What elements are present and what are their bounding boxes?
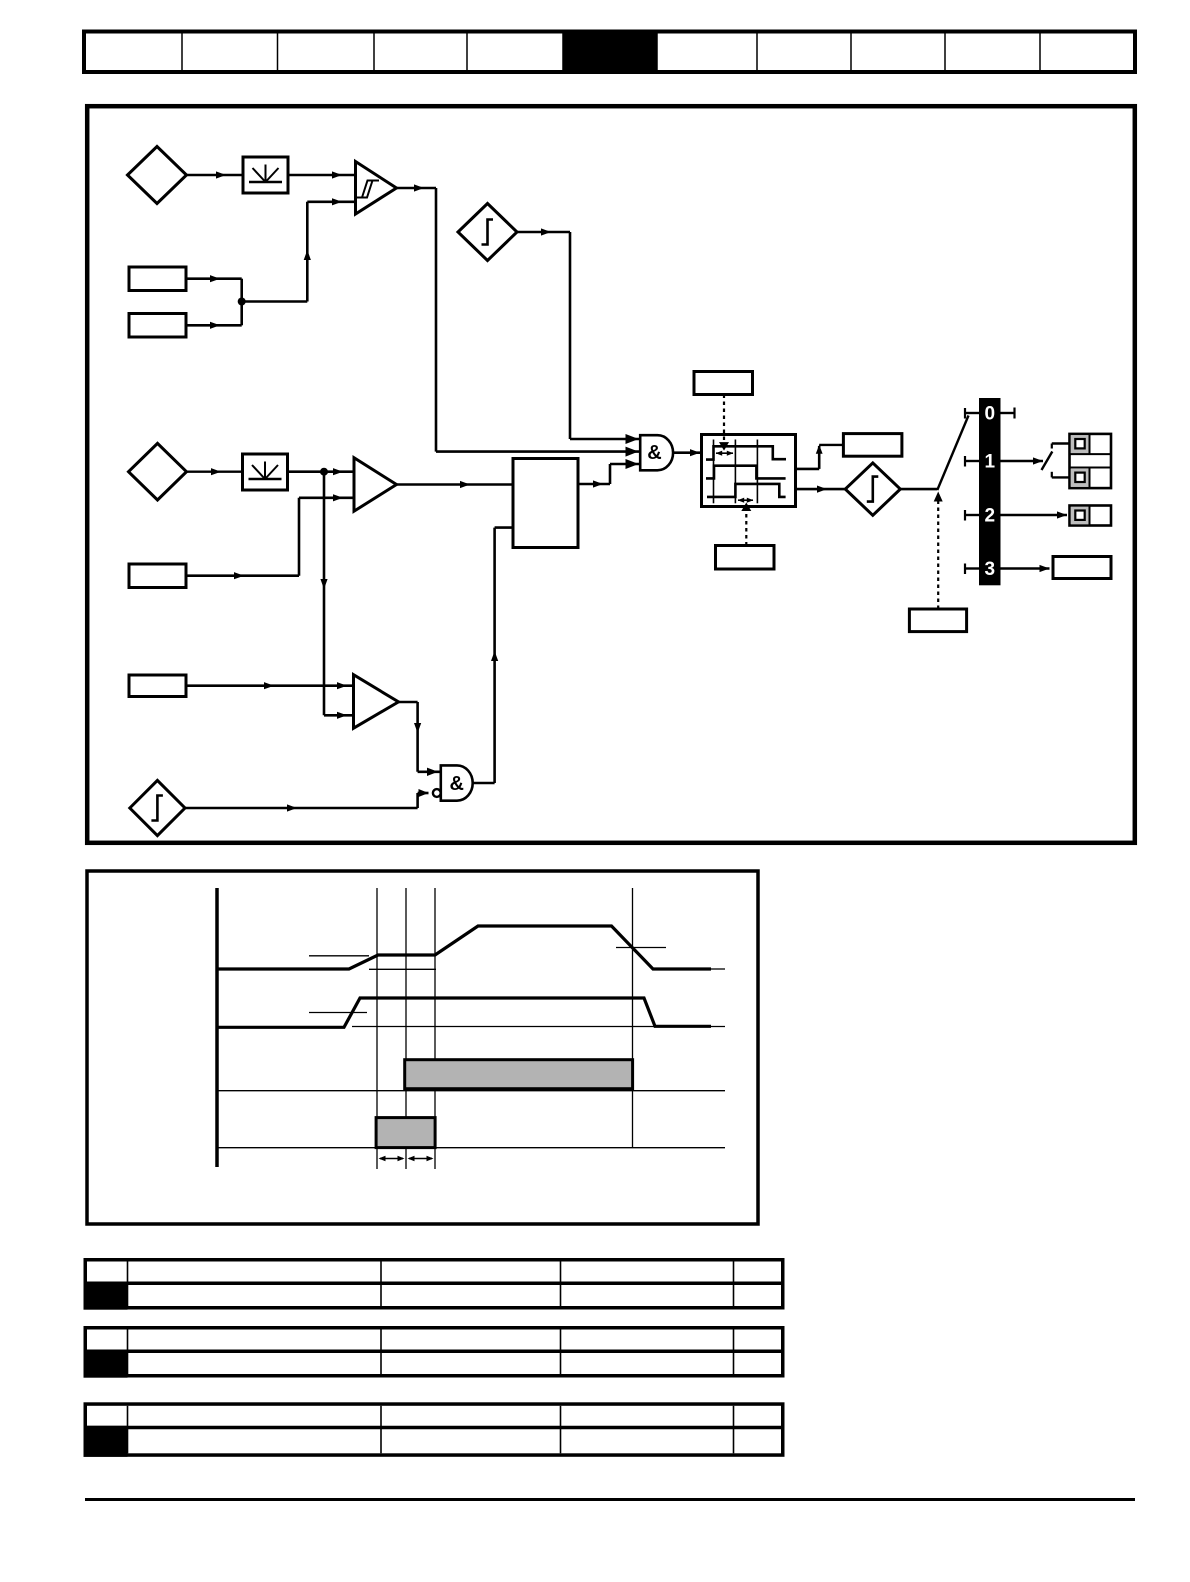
svg-text:2: 2 (985, 505, 996, 526)
svg-text:&: & (647, 442, 661, 464)
svg-text:0: 0 (985, 403, 996, 424)
svg-text:3: 3 (985, 559, 996, 580)
svg-text:1: 1 (985, 451, 996, 472)
svg-text:&: & (449, 773, 463, 795)
